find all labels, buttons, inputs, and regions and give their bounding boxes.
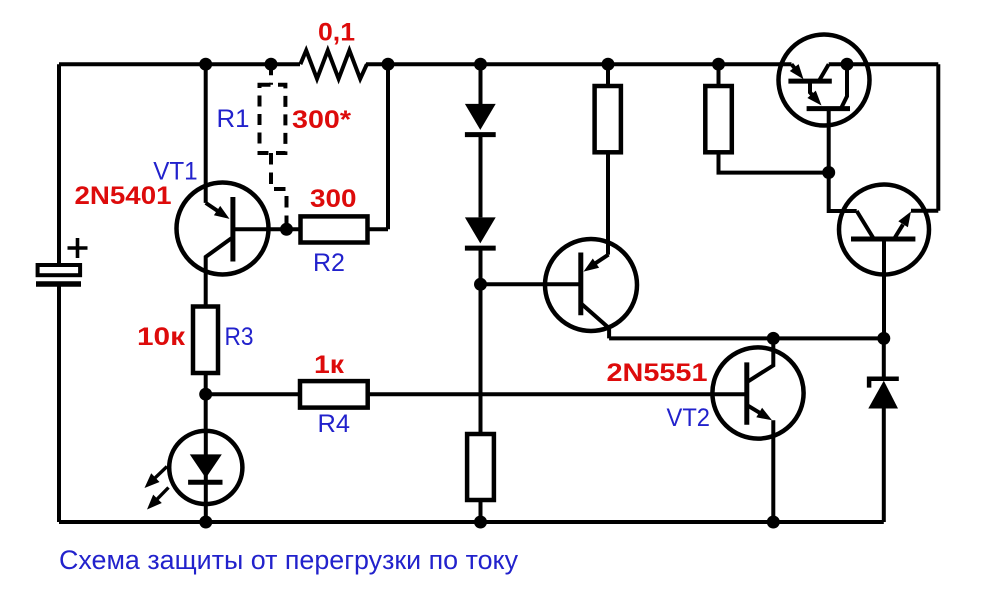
wire U1 base lead down [827,109,831,173]
resistor R1 dashed body [260,85,286,153]
transistor Q5 circle [839,185,929,275]
resistor top B body [705,86,732,152]
wire top rail middle section [366,62,792,66]
node top rail at VT1 [199,58,212,71]
transistor VT3 emitter arrow [584,255,609,272]
transistor VT1 circle [177,183,269,275]
wire bottom rail [59,520,884,524]
wire top resistor A drop [606,64,610,86]
node top rail at diode column [474,58,487,71]
transistor U1 Q1 collector lead [819,64,829,81]
wire right rail vertical [936,64,940,211]
transistor VT3 collector lead [581,303,609,338]
wire R2 to riser [368,227,389,231]
LED circle [169,431,242,504]
wire battery column upper [57,64,61,265]
resistor R2 body [301,216,368,242]
wire R1 dashed top lead [269,64,273,85]
wire diode column top [479,64,483,104]
wire battery column lower [57,284,61,522]
wire top rail left section [59,62,300,66]
transistor VT3 circle [545,239,637,331]
transistor U1 Q1 emitter arrow [790,64,804,79]
node R1 bottom at base wire [280,223,293,236]
capacitor battery bottom plate [36,281,81,287]
svg-text:300: 300 [310,185,357,213]
zener diode VD triangle [868,381,898,409]
wire node to LED [204,394,208,431]
wire y338 horizontal [609,336,884,340]
wire resistor B to darlington base node [719,152,829,172]
node top rail at resistor B [712,58,725,71]
wire darlington node to Q5 collector [829,173,857,212]
diode D2 cathode bar [465,246,496,251]
node darlington base junction [822,166,835,179]
wire R4 left lead [206,392,300,396]
wire diode column to bottom resistor [479,248,483,434]
svg-text:Схема защиты от перегрузки по: Схема защиты от перегрузки по току [59,545,518,575]
node R3 bottom [199,388,212,401]
svg-text:VT2: VT2 [667,404,711,432]
svg-text:R3: R3 [225,323,254,351]
transistor U1 Q2 base bar [807,106,850,111]
node Q5 base zener junction [877,332,890,345]
capacitor battery plus sign [68,238,88,258]
transistor U1 Q2 collector lead [841,64,847,108]
LED emission arrow 2 [147,488,169,510]
svg-text:0,1: 0,1 [318,19,355,47]
wire zener bottom lead [882,409,886,523]
transistor VT1 base bar [230,197,235,262]
svg-text:1к: 1к [314,351,345,379]
wire R1 dashed bottom lead [271,153,287,229]
transistor U1 link lead [807,81,821,105]
wire riser x389 [386,64,390,229]
wire Q5 emitter to right rail [911,209,938,213]
LED cathode bar [188,480,222,485]
wire zener top lead [882,338,886,379]
wire VT1 base to R2 [233,227,301,231]
transistor VT3 base bar [578,253,583,316]
transistor VT2 emitter arrow [747,405,772,420]
resistor bottom middle body [467,434,494,500]
diode D1 cathode bar [465,132,496,137]
svg-text:R4: R4 [318,410,351,438]
diode D1 triangle [465,104,496,130]
transistor Q5 emitter arrow [894,212,911,240]
svg-text:300*: 300* [292,106,351,134]
zener diode VD cathode bar [869,379,899,388]
wire R3 to node [204,373,208,394]
node top rail at riser [382,58,395,71]
node VT2 collector junction [767,332,780,345]
transistor VT2 circle [712,347,803,438]
node diode column base junction [474,278,487,291]
resistor R3 body [193,307,218,374]
node bottom rail LED [199,516,212,529]
wire bottom resistor to rail [479,500,483,522]
wire between diodes [479,135,483,218]
transistor VT2 collector lead [747,338,774,382]
resistor 0,1 zigzag [300,50,367,78]
diode D2 triangle [465,217,496,243]
wire top rail right section [829,62,939,66]
node bottom rail VT2 [767,516,780,529]
svg-text:10к: 10к [137,323,186,351]
node top rail at resistor A [602,58,615,71]
svg-text:R2: R2 [313,249,345,277]
transistor VT1 collector lead [206,238,232,306]
LED triangle [190,454,222,478]
capacitor battery top plate [38,265,81,275]
LED emission arrow 1 [145,467,168,489]
resistor R4 body [300,381,368,408]
transistor U1 darlington circle [779,35,870,126]
LED vertical through [204,431,208,522]
wire Q5 base down [882,239,886,338]
transistor VT2 base bar [744,362,749,424]
wire top resistor B drop [717,64,721,86]
wire resistor A to VT3 emitter [606,152,610,254]
transistor Q5 collector lead [857,211,873,238]
transistor Q5 base bar [851,237,915,242]
transistor U1 Q1 base bar [788,79,831,84]
resistor top A body [595,86,621,152]
node top rail at darlington collector [841,58,854,71]
wire R4 to VT2 base [368,392,747,396]
node top rail at R1 [265,58,278,71]
svg-text:2N5551: 2N5551 [607,359,708,387]
wire diode node to VT3 base [481,282,581,286]
transistor VT1 emitter arrow [206,203,230,219]
wire VT2 emitter down [771,420,775,522]
svg-text:R1: R1 [217,105,250,133]
svg-text:2N5401: 2N5401 [75,182,172,210]
node bottom rail resistor [474,516,487,529]
wire VT1 emitter drop [204,64,208,203]
